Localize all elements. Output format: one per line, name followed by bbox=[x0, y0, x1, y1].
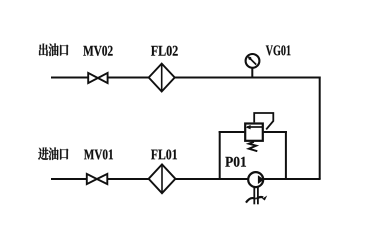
wire relief loop right vertical bbox=[285, 131, 287, 179]
valve MV02 bbox=[88, 73, 107, 83]
pump mount wings bbox=[246, 197, 263, 203]
valve MV01 bbox=[87, 174, 108, 184]
relief valve pilot box bbox=[254, 113, 273, 129]
wire pump to right vertical bbox=[263, 178, 320, 180]
wire right vertical bbox=[319, 77, 321, 180]
wire inlet to MV01 bbox=[51, 178, 87, 180]
wire FL02 to right vertical bbox=[175, 77, 321, 79]
gauge VG01 stem bbox=[251, 68, 253, 78]
wire FL01 to pump P01 bbox=[175, 178, 248, 180]
node 出油口 (oil outlet) label bbox=[39, 43, 69, 56]
pump P01 bbox=[248, 172, 264, 187]
node 进油口 (oil inlet) label bbox=[38, 147, 68, 160]
pump suction legs bbox=[254, 187, 258, 204]
relief valve body bbox=[245, 124, 263, 141]
valve MV02 label bbox=[83, 46, 112, 56]
wire MV01 to FL01 bbox=[107, 178, 149, 180]
filter FL02 label bbox=[151, 46, 178, 56]
gauge VG01 label bbox=[266, 45, 291, 55]
wire relief loop top left bbox=[219, 131, 245, 133]
filter FL02 bbox=[149, 64, 175, 92]
wire outlet to MV02 bbox=[51, 77, 88, 79]
pump wing tip bbox=[262, 196, 267, 201]
wire relief loop top right bbox=[264, 131, 287, 133]
filter FL01 label bbox=[151, 149, 177, 159]
valve MV01 label bbox=[84, 149, 113, 159]
relief valve flow arrow bbox=[246, 125, 263, 129]
wire MV02 to FL02 bbox=[108, 77, 149, 79]
filter FL01 bbox=[149, 164, 176, 193]
relief valve spring bbox=[249, 142, 257, 151]
wire relief loop left vertical bbox=[219, 131, 221, 179]
pressure gauge VG01 bbox=[246, 54, 260, 68]
pump P01 label bbox=[225, 157, 246, 167]
